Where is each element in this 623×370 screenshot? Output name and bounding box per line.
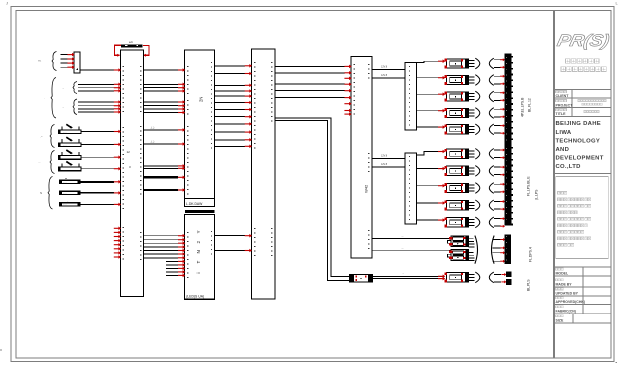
svg-text:12: 12: [127, 150, 131, 154]
terminal bar TB1: [504, 54, 511, 144]
svg-text:N: N: [40, 191, 42, 195]
red stub arrows module A lower left: [114, 227, 121, 231]
fuse F3: [59, 202, 81, 206]
wires E to F: [372, 70, 405, 79]
wires to terminal bar TB3: [493, 240, 501, 262]
shared mating parens for CN11 CN12: [475, 236, 478, 264]
L-bus wire 1 (C to bottom connector): [275, 118, 350, 277]
svg-text:LIWA: LIWA: [556, 130, 572, 136]
title block left border: [553, 11, 555, 359]
svg-text:... ..: ... ..: [63, 132, 67, 134]
connector assembly CN8: [444, 183, 494, 194]
svg-text:(L.LPS: (L.LPS: [535, 189, 539, 200]
svg-text:FL.LPS.BL.E: FL.LPS.BL.E: [527, 176, 531, 196]
svg-text:12V.8: 12V.8: [381, 163, 388, 166]
svg-text:..(..): ..(..): [150, 141, 154, 144]
end terminal blocks: [506, 272, 512, 278]
title cell gray text: [584, 111, 586, 113]
terminal bar TB2: [504, 143, 511, 226]
L-bus wire 2: [275, 121, 350, 281]
svg-text:N: N: [196, 250, 201, 253]
input brace group 2: [51, 78, 56, 119]
connector assembly CN12: [448, 250, 475, 261]
wire bus C to E: [275, 66, 345, 97]
bottom table: [554, 266, 611, 268]
black label bar above module D: [185, 210, 215, 213]
connector assembly CN3: [444, 91, 494, 102]
stub wire bundle into D: [166, 261, 178, 275]
svg-text:FL.DPS.4: FL.DPS.4: [529, 247, 533, 262]
module A (main unit): [120, 50, 143, 297]
bottom empty box: [554, 323, 611, 358]
sub-brace a: [73, 82, 77, 94]
connector assembly CN10: [444, 217, 494, 228]
svg-text:PROJECT: PROJECT: [556, 103, 574, 107]
svg-text:MODEL: MODEL: [556, 272, 570, 276]
module B: [185, 50, 215, 198]
wires E to G: [372, 159, 405, 168]
module pin label ticks: [123, 62, 409, 280]
svg-text:... ..: ... ..: [63, 169, 67, 171]
brace switches S1 S2: [50, 125, 55, 148]
red input arrows group1 group2: [438, 59, 445, 63]
module G: [405, 153, 417, 224]
wire CN to bottom assembly (double): [372, 276, 444, 278]
svg-text:BL.FL.12: BL.FL.12: [528, 98, 532, 112]
svg-text:AND: AND: [556, 147, 570, 153]
J1 input wires: [61, 55, 69, 68]
connector assembly CN13 (bottom): [444, 272, 494, 283]
svg-text:12V.8: 12V.8: [381, 74, 388, 77]
svg-text:PR(S): PR(S): [556, 32, 611, 50]
svg-text:2N: 2N: [199, 97, 204, 102]
brace fuses: [48, 177, 53, 210]
svg-text:(LED)S UA(: (LED)S UA(: [186, 294, 205, 298]
svg-text:MADE BY: MADE BY: [556, 282, 573, 286]
logo PRES: [556, 32, 611, 50]
wires group2a to A: [78, 84, 114, 91]
switch S3: [59, 156, 82, 160]
black label bar above module A: [121, 44, 143, 47]
connector assembly CN5: [444, 124, 494, 135]
svg-text:...: ...: [402, 271, 404, 274]
J1 brace: [52, 52, 57, 71]
svg-text:Y: Y: [196, 230, 201, 233]
connector assembly CN6: [444, 149, 494, 160]
wires D to C: [215, 236, 245, 251]
module F: [405, 63, 417, 131]
svg-text:... ..: ... ..: [63, 204, 67, 206]
terminal bar pin dots: [505, 57, 508, 261]
module C: [251, 49, 275, 299]
connector assembly CN11: [448, 236, 475, 247]
svg-text:L.DK.DAW: L.DK.DAW: [186, 202, 203, 206]
svg-text:CLIENT: CLIENT: [556, 94, 570, 98]
svg-text:12V.8: 12V.8: [381, 155, 388, 158]
svg-text:BL.PLS: BL.PLS: [527, 279, 531, 291]
svg-text:J: J: [6, 1, 8, 6]
svg-text:... ..: ... ..: [63, 182, 67, 184]
svg-text:12V.8: 12V.8: [381, 66, 388, 69]
terminal bar right pins: [512, 56, 513, 225]
module E: [351, 57, 372, 259]
svg-text:...: ...: [62, 106, 64, 109]
svg-text:UPDATED BY: UPDATED BY: [556, 292, 579, 296]
svg-text:...: ...: [62, 87, 64, 90]
terminal bar TB3: [504, 235, 511, 264]
svg-text:....: ....: [401, 234, 404, 237]
svg-text:CO.,LTD: CO.,LTD: [556, 164, 581, 170]
svg-text:DEVELOPMENT: DEVELOPMENT: [556, 156, 604, 162]
connector assembly CN2: [444, 75, 494, 86]
svg-text:... ..: ... ..: [63, 193, 67, 195]
svg-text:a.b: a.b: [129, 40, 133, 44]
svg-text:W42: W42: [364, 184, 369, 193]
red clamp bracket around A label: [115, 45, 149, 55]
svg-text:... ..: ... ..: [63, 158, 67, 160]
module B caption box: [185, 198, 215, 206]
svg-text:APPROVED(CHK): APPROVED(CHK): [556, 300, 586, 304]
wire bus A to D: [143, 236, 178, 258]
switch S1: [59, 130, 82, 134]
project cell gray text: [578, 100, 580, 102]
wires G to group2 assemblies: [417, 152, 445, 221]
svg-text:i: i: [196, 272, 201, 273]
connector assembly CN4: [444, 108, 494, 119]
wires F to group1 assemblies: [417, 61, 445, 127]
inline connector CN bottom: [350, 275, 373, 283]
long wires E to pair assemblies: [372, 238, 451, 250]
fuse F1: [59, 180, 81, 184]
module D (LEDS unit): [185, 214, 215, 299]
connector assembly CN1: [444, 58, 494, 69]
connector assembly CN7: [444, 166, 494, 177]
svg-text:m.: m.: [38, 59, 41, 63]
wire bus B to C: [215, 66, 245, 147]
svg-text:BEIJING DAHE: BEIJING DAHE: [556, 121, 602, 127]
wires to end terminals: [494, 275, 501, 282]
brace switches S3 S4: [50, 151, 55, 174]
red stub arrows module E left: [344, 77, 351, 81]
switch S4: [59, 167, 82, 171]
svg-text:T: T: [196, 261, 201, 264]
svg-text:....: ....: [401, 246, 404, 249]
company chinese name gray: [566, 59, 571, 64]
wire J1 to A: [80, 69, 114, 71]
switch S2: [59, 143, 82, 147]
svg-text:2: 2: [196, 241, 201, 244]
wires group2b to A: [78, 102, 114, 112]
svg-text:.~: .~: [40, 135, 43, 139]
svg-text:SIZE: SIZE: [556, 318, 564, 322]
svg-text:4P.EL.LPS.B: 4P.EL.LPS.B: [521, 97, 525, 117]
notes box: [556, 177, 609, 259]
svg-text:TITLE: TITLE: [556, 112, 567, 116]
fuse F2: [59, 191, 81, 195]
svg-text:FABRIC(CN): FABRIC(CN): [556, 309, 576, 313]
sub-brace b: [73, 99, 77, 115]
titleblock row borders: [554, 89, 611, 91]
connector assembly CN9: [444, 200, 494, 211]
wire bus A to B: [143, 70, 178, 190]
connector J1: [74, 52, 80, 73]
svg-text:... ..: ... ..: [63, 145, 67, 147]
svg-text:TECHNOLOGY: TECHNOLOGY: [556, 138, 601, 144]
svg-text:...: ...: [38, 160, 41, 164]
svg-text:..(..): ..(..): [150, 127, 154, 130]
